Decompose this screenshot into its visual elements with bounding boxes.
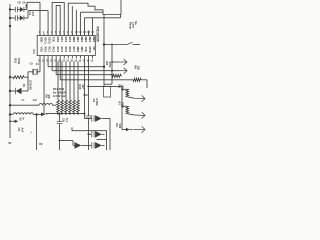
wire	[83, 18, 85, 36]
capacitor C1 out	[91, 115, 93, 121]
wire	[39, 58, 41, 71]
wire	[103, 15, 105, 67]
switch S1	[104, 44, 127, 46]
svg-text:RB2: RB2	[80, 37, 84, 43]
node	[121, 88, 123, 90]
diode D1	[10, 90, 16, 92]
resistor R5	[122, 88, 127, 90]
wire	[51, 58, 53, 70]
svg-text:TCE: TCE	[52, 37, 56, 43]
wire	[26, 2, 28, 9]
diode arrow	[95, 131, 102, 138]
wire	[92, 18, 94, 36]
wire pin stubs bottom	[39, 56, 41, 59]
capacitor C3	[86, 115, 92, 117]
wire	[75, 10, 77, 36]
open arrow stub	[10, 120, 15, 122]
svg-text:100R: 100R	[121, 102, 125, 108]
svg-text:1/4 W min: 1/4 W min	[53, 94, 66, 98]
node	[121, 105, 123, 107]
svg-text:RB0: RB0	[72, 37, 76, 43]
svg-text:MCR: MCR	[88, 47, 92, 53]
svg-text:470k: 470k	[108, 62, 112, 68]
svg-text:4n8: 4n8	[25, 4, 28, 9]
node	[84, 94, 86, 96]
svg-text:RB6: RB6	[76, 47, 80, 53]
transformer T1 box	[103, 67, 105, 87]
wire	[59, 58, 61, 79]
node	[9, 113, 11, 115]
node	[9, 90, 11, 92]
wire	[72, 127, 107, 150]
diode D4	[122, 129, 126, 131]
diode arrow	[95, 115, 102, 122]
open arrow	[134, 126, 146, 132]
wire	[87, 58, 89, 115]
capacitor C6	[59, 114, 61, 122]
wire	[27, 72, 29, 91]
resistor R6	[133, 78, 141, 81]
capacitor C1	[10, 9, 15, 11]
node	[87, 133, 89, 135]
wire	[52, 3, 64, 36]
wire	[84, 118, 91, 120]
svg-text:0.1: 0.1	[65, 118, 69, 122]
resistor R22	[10, 76, 13, 78]
svg-text:0V: 0V	[8, 141, 11, 145]
svg-text:RC6: RC6	[68, 47, 72, 53]
open arrow	[41, 113, 46, 117]
wire	[60, 140, 74, 142]
capacitor C7 out	[91, 142, 93, 148]
wire	[36, 115, 38, 151]
resistor R7	[122, 105, 127, 107]
svg-text:RC7: RC7	[72, 47, 76, 53]
svg-text:4u7: 4u7	[33, 99, 38, 102]
resistor comb R11-R16	[57, 100, 60, 112]
wire	[87, 31, 89, 36]
wire	[83, 58, 85, 118]
svg-text:10k: 10k	[137, 66, 141, 71]
svg-text:4u7: 4u7	[21, 128, 25, 133]
inductor L2	[10, 114, 13, 116]
crystal X1	[28, 71, 32, 73]
node bus-cap1	[9, 8, 11, 10]
open arrow	[134, 112, 145, 119]
svg-text:0V: 0V	[39, 142, 42, 146]
wire pin stubs top	[39, 33, 41, 35]
svg-text:PIC16C55: PIC16C55	[95, 27, 99, 42]
svg-text:OSC1: OSC1	[44, 37, 48, 45]
wire	[121, 86, 123, 129]
svg-text:RC5: RC5	[64, 47, 68, 53]
op-amp U1 body	[37, 36, 95, 56]
svg-text:RA1: RA1	[60, 37, 64, 43]
svg-text:RB4: RB4	[88, 37, 92, 43]
open arrow	[112, 61, 118, 63]
svg-text:RC1: RC1	[48, 47, 52, 53]
wire	[71, 6, 73, 35]
svg-text:TCE: TCE	[84, 47, 88, 53]
svg-text:5V6: 5V6	[118, 124, 122, 129]
svg-text:4n7: 4n7	[31, 12, 35, 17]
wire	[111, 45, 113, 85]
svg-text:OSC2: OSC2	[48, 37, 52, 45]
wire	[79, 12, 81, 35]
svg-text:RB7: RB7	[80, 47, 84, 53]
svg-text:RA3: RA3	[68, 37, 72, 43]
wire	[55, 58, 57, 74]
wire	[68, 0, 121, 36]
wire	[56, 5, 60, 35]
resistor R4	[112, 74, 121, 77]
svg-text:VSS: VSS	[40, 47, 44, 53]
diode D2	[20, 7, 24, 12]
open arrow	[118, 68, 127, 74]
wire comb bus	[46, 113, 85, 115]
svg-text:IC1: IC1	[32, 50, 36, 55]
node	[9, 25, 11, 27]
wire	[109, 119, 111, 151]
wire	[9, 4, 11, 138]
svg-text:RA2: RA2	[64, 37, 68, 43]
diode arrow	[95, 142, 102, 149]
svg-text:RC2: RC2	[52, 47, 56, 53]
svg-text:RC0: RC0	[44, 47, 48, 53]
inductor L1	[10, 104, 39, 106]
wire	[43, 58, 45, 113]
svg-text:RB3: RB3	[84, 37, 88, 43]
svg-text:RB1: RB1	[76, 37, 80, 43]
svg-text:100k: 100k	[17, 58, 21, 65]
wire	[88, 85, 122, 87]
svg-text:47k: 47k	[47, 95, 51, 100]
capacitor C2 out	[88, 133, 91, 135]
diode arrow	[75, 142, 82, 149]
svg-text:100R: 100R	[121, 85, 125, 91]
wire comb feeds	[57, 62, 59, 101]
wire row3	[73, 144, 74, 146]
svg-text:RA0: RA0	[56, 37, 60, 43]
svg-text:ZC5148: ZC5148	[29, 80, 33, 90]
wire	[97, 139, 107, 141]
capacitor C2	[10, 17, 15, 19]
svg-text:RC3: RC3	[56, 47, 60, 53]
svg-text:NC: NC	[92, 47, 96, 51]
svg-text:0.022: 0.022	[95, 99, 99, 106]
diode D3	[20, 15, 24, 20]
svg-text:RC4: RC4	[60, 47, 64, 53]
wire	[47, 58, 49, 66]
node bus-cap2	[9, 17, 11, 19]
open arrow	[134, 95, 145, 102]
node	[9, 76, 11, 78]
wire	[27, 11, 29, 18]
svg-text:VDD: VDD	[40, 37, 44, 43]
